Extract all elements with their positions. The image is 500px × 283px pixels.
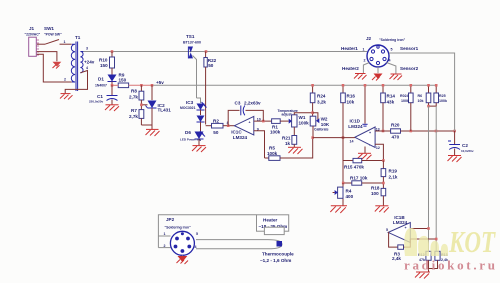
resistor R16: [341, 84, 356, 161]
resistor R15 feedback: [343, 158, 385, 169]
svg-text:J1: J1: [29, 26, 35, 31]
thermocouple: [196, 240, 294, 263]
svg-text:5: 5: [386, 228, 388, 232]
wire Sensor1: [389, 53, 455, 131]
svg-text:2: 2: [364, 59, 366, 63]
svg-text:100: 100: [371, 191, 379, 196]
svg-text:IC1D: IC1D: [350, 118, 361, 123]
resistor R8: [129, 85, 144, 109]
opto IC3 MOC3021: [180, 98, 207, 131]
svg-text:C1: C1: [97, 94, 103, 99]
resistor R25: [434, 84, 447, 103]
resistor R18: [371, 186, 386, 206]
svg-text:10,0x50v: 10,0x50v: [461, 149, 474, 153]
svg-text:1k: 1k: [285, 141, 291, 146]
ground R21: [288, 147, 303, 154]
svg-text:SW1: SW1: [44, 26, 54, 31]
svg-text:Heater: Heater: [263, 218, 278, 223]
svg-text:KOT: KOT: [448, 224, 496, 259]
diode D1: [95, 75, 117, 88]
svg-text:3: 3: [86, 47, 88, 51]
svg-text:100k: 100k: [439, 99, 447, 103]
svg-text:R15 470k: R15 470k: [344, 165, 364, 170]
svg-text:1: 1: [363, 48, 365, 52]
svg-text:R6: R6: [418, 94, 423, 98]
svg-text:C2: C2: [462, 143, 468, 148]
capacitor C1: [89, 85, 118, 104]
svg-text:LM324: LM324: [233, 135, 248, 140]
svg-text:10k: 10k: [347, 100, 355, 105]
connector JP2: [164, 217, 199, 255]
svg-text:TS1: TS1: [186, 34, 195, 39]
svg-text:1: 1: [64, 40, 66, 44]
switch SW1: [37, 26, 72, 44]
IC2 TL431: [140, 85, 171, 125]
ground C2: [448, 156, 462, 163]
op-amp IC1C: [227, 116, 272, 158]
svg-text:D1: D1: [98, 77, 104, 82]
resistor R13: [429, 251, 449, 268]
svg-text:R21: R21: [282, 136, 291, 141]
capacitor C3 feedback: [228, 101, 263, 126]
svg-text:220,0x25v: 220,0x25v: [89, 100, 104, 104]
svg-text:LM324: LM324: [393, 220, 408, 225]
op-amp IC1B: [386, 215, 438, 243]
svg-text:~1,2 - 1,6 Ohm: ~1,2 - 1,6 Ohm: [260, 258, 291, 263]
resistor R12: [418, 251, 431, 271]
svg-text:2,1k: 2,1k: [389, 175, 398, 180]
resistor R6: [418, 84, 431, 103]
resistor R1: [270, 119, 289, 135]
pot W1: [278, 109, 313, 136]
svg-text:MOC3021: MOC3021: [180, 106, 196, 110]
svg-text:R24: R24: [317, 94, 326, 99]
svg-text:100k: 100k: [270, 129, 281, 134]
op-amp IC1D: [313, 84, 391, 161]
wire output node to C2: [401, 130, 456, 133]
wire Sensor2 to ground: [387, 63, 396, 74]
svg-text:+: +: [405, 226, 407, 230]
svg-text:Sensor1: Sensor1: [400, 46, 419, 51]
wire J1 to T1 primary return: [37, 54, 72, 82]
pot R4: [333, 183, 354, 206]
svg-text:JP2: JP2: [166, 217, 175, 222]
svg-text:T1: T1: [75, 35, 81, 40]
svg-text:3,2k: 3,2k: [317, 100, 326, 105]
svg-text:+: +: [369, 131, 371, 135]
svg-text:10k: 10k: [418, 99, 424, 103]
resistor R22: [204, 52, 217, 125]
resistor R024: [400, 84, 413, 131]
svg-text:2,7k: 2,7k: [129, 95, 138, 100]
svg-text:+: +: [249, 121, 251, 125]
resistor R19: [381, 161, 398, 189]
svg-text:R5: R5: [269, 146, 275, 151]
resistor R10: [99, 52, 115, 75]
resistor R21: [282, 136, 297, 148]
svg-text:2,4k: 2,4k: [392, 256, 401, 261]
svg-text:"Soldering iron": "Soldering iron": [165, 226, 192, 230]
svg-text:R7: R7: [131, 108, 137, 113]
svg-text:Calibrate: Calibrate: [314, 127, 329, 131]
svg-text:+5v: +5v: [156, 80, 164, 85]
svg-text:50: 50: [208, 63, 214, 68]
svg-text:"220VAC": "220VAC": [25, 33, 41, 37]
ground J2 shield: [372, 67, 383, 81]
svg-text:R25: R25: [439, 94, 446, 98]
svg-text:IC3: IC3: [186, 100, 194, 105]
svg-text:IC1C: IC1C: [231, 130, 242, 135]
ground D6: [192, 146, 206, 152]
ground TL431: [146, 129, 160, 136]
svg-text:43k: 43k: [387, 100, 395, 105]
wire W2 to IC1D: [311, 136, 344, 139]
svg-text:1: 1: [164, 232, 166, 236]
svg-text:BT137-600: BT137-600: [183, 41, 201, 45]
svg-text:1N4007: 1N4007: [95, 84, 107, 88]
svg-text:radiokot.ru: radiokot.ru: [404, 258, 495, 273]
svg-text:R20: R20: [391, 123, 400, 128]
svg-text:Thermocouple: Thermocouple: [262, 252, 294, 257]
svg-text:adjust: adjust: [282, 112, 293, 116]
pot W2: [310, 113, 330, 138]
resistor R9: [118, 73, 128, 88]
resistor R14: [381, 84, 396, 132]
svg-text:R18: R18: [371, 186, 380, 191]
resistor R7: [129, 108, 152, 129]
wire T1 secondary bottom: [65, 71, 87, 94]
ground IC1D: [358, 153, 372, 159]
ground J1 earth: [37, 52, 62, 69]
wire bracket R6 R25: [427, 103, 436, 108]
svg-text:100k: 100k: [267, 151, 278, 156]
svg-text:W2: W2: [321, 116, 328, 121]
svg-text:100k: 100k: [299, 121, 310, 126]
wire Heater2 to ground: [363, 63, 369, 74]
svg-text:TL431: TL431: [158, 108, 172, 113]
svg-text:4: 4: [389, 59, 391, 63]
svg-text:R14: R14: [387, 94, 396, 99]
svg-text:R17 10k: R17 10k: [350, 176, 368, 181]
svg-text:R16: R16: [347, 94, 356, 99]
svg-text:400: 400: [346, 194, 354, 199]
svg-text:D6: D6: [185, 130, 191, 135]
svg-text:5: 5: [196, 232, 198, 236]
svg-text:150: 150: [119, 78, 127, 83]
svg-text:J2: J2: [366, 36, 372, 41]
ground JP2 shield: [177, 255, 189, 264]
svg-text:100k: 100k: [401, 99, 409, 103]
svg-text:C3: C3: [235, 101, 241, 106]
resistor R2: [206, 119, 235, 136]
ground Heater2: [354, 74, 367, 80]
ground Sensor2: [390, 74, 403, 80]
svg-text:4: 4: [86, 66, 88, 70]
resistor R20: [391, 123, 401, 140]
svg-text:13: 13: [376, 127, 380, 131]
svg-text:2,7k: 2,7k: [129, 114, 138, 119]
svg-text:R8: R8: [131, 89, 137, 94]
svg-text:"Soldering iron": "Soldering iron": [379, 38, 406, 42]
svg-text:R024: R024: [400, 94, 409, 98]
ground R18: [375, 206, 389, 213]
ground C1: [105, 105, 119, 111]
svg-text:50: 50: [213, 130, 219, 135]
svg-text:R10: R10: [99, 58, 108, 63]
svg-text:R2: R2: [213, 119, 219, 124]
resistor R24: [310, 84, 326, 116]
transformer T1: [64, 35, 95, 91]
connector J2: [341, 36, 419, 71]
resistor R5: [265, 138, 313, 161]
svg-text:LED Power ing: LED Power ing: [180, 138, 201, 142]
svg-text:LM324: LM324: [348, 124, 363, 129]
svg-text:"POW SW": "POW SW": [44, 33, 62, 37]
watermark: [404, 224, 496, 273]
wire vertical to IC1B right: [435, 106, 437, 251]
node junctions on top wire: [111, 50, 208, 53]
ground R12 R13: [415, 272, 430, 279]
svg-text:5: 5: [391, 48, 393, 52]
svg-text:150: 150: [100, 63, 108, 68]
svg-text:+24v: +24v: [84, 60, 95, 65]
svg-text:Heater2: Heater2: [342, 66, 359, 71]
LED D6: [180, 130, 205, 145]
svg-text:Heater1: Heater1: [341, 46, 358, 51]
svg-text:470: 470: [392, 135, 400, 140]
triac TS1: [183, 34, 201, 98]
net +5v rail: [111, 80, 436, 87]
svg-text:12: 12: [376, 146, 380, 150]
resistor R17: [342, 161, 385, 186]
svg-text:10K: 10K: [321, 122, 330, 127]
ground T1: [60, 94, 73, 100]
wire vertical to IC1B left: [428, 106, 430, 251]
svg-text:Sensor2: Sensor2: [400, 66, 419, 71]
svg-text:14: 14: [350, 140, 354, 144]
svg-text:W1: W1: [299, 115, 306, 120]
capacitor C2: [448, 131, 474, 155]
svg-text:2,2x63v: 2,2x63v: [244, 101, 261, 106]
wire JP2 loop left: [158, 215, 256, 248]
svg-text:2: 2: [64, 78, 66, 82]
resistor R3 feedback: [388, 232, 410, 260]
connector J1: [25, 26, 41, 56]
heater block: [257, 215, 289, 235]
wire main top 220V run: [83, 51, 367, 53]
svg-text:R19: R19: [389, 169, 398, 174]
ground R4: [330, 206, 347, 213]
svg-text:R4: R4: [346, 189, 352, 194]
